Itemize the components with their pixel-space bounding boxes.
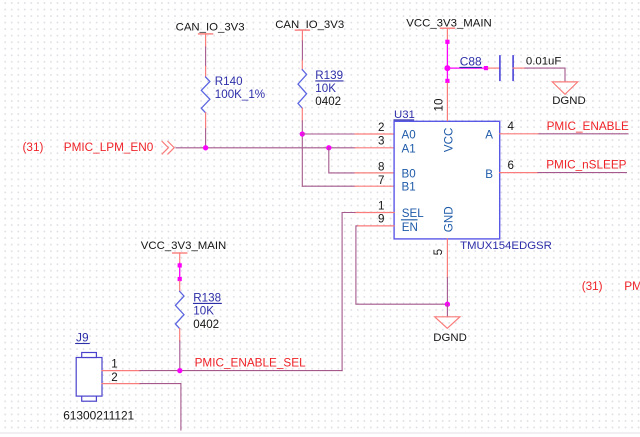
wire: PMIC_nSLEEP net xyxy=(538,172,626,174)
R140 top pin stub xyxy=(205,67,207,78)
svg-text:7: 7 xyxy=(378,174,384,187)
wire: pin1 to SEL net xyxy=(140,370,342,372)
wire: net segment to R140 top xyxy=(205,47,207,67)
svg-text:R138: R138 xyxy=(193,292,221,305)
svg-text:SEL: SEL xyxy=(402,207,424,220)
svg-text:R140: R140 xyxy=(215,75,243,88)
R138 top pin stub xyxy=(179,281,181,291)
wire: bar to R139 (salmon stub) xyxy=(301,30,303,41)
svg-text:DGND: DGND xyxy=(552,95,586,107)
svg-text:0402: 0402 xyxy=(315,95,341,108)
pin B0 stub xyxy=(355,172,394,174)
wire: PMIC_LPM_EN0 horizontal to A1 xyxy=(176,147,355,149)
svg-text:(31): (31) xyxy=(582,280,603,293)
svg-text:J9: J9 xyxy=(76,330,89,344)
svg-text:GND: GND xyxy=(443,206,456,232)
svg-text:10K: 10K xyxy=(315,82,336,95)
pin EN stub xyxy=(357,225,394,227)
pin B1 stub xyxy=(355,185,394,187)
svg-text:A0: A0 xyxy=(402,129,416,142)
svg-text:CAN_IO_3V3: CAN_IO_3V3 xyxy=(176,21,245,33)
junction at B0 branch xyxy=(326,145,331,150)
magenta square at C88 xyxy=(484,66,488,70)
wire: R140 bottom to horizontal net xyxy=(205,129,207,148)
bottom border line xyxy=(0,432,640,434)
R138 bottom pin stub xyxy=(179,329,181,341)
svg-text:100K_1%: 100K_1% xyxy=(215,88,265,101)
svg-text:A1: A1 xyxy=(402,142,416,155)
resistor R138 xyxy=(175,291,184,328)
C88 left pin stub xyxy=(488,67,500,69)
wire: bar down (salmon) xyxy=(446,28,448,42)
magenta square top xyxy=(178,263,182,267)
wire: pin5 to junction xyxy=(446,278,448,305)
svg-text:U31: U31 xyxy=(394,109,415,121)
pin SEL stub xyxy=(355,212,394,214)
R140 bottom pin stub xyxy=(205,113,207,129)
svg-text:2: 2 xyxy=(378,121,384,134)
C88 right pin stub xyxy=(513,67,525,69)
junction at GND node xyxy=(445,302,450,307)
svg-text:B0: B0 xyxy=(402,167,416,180)
svg-text:PMIC_ENABLE: PMIC_ENABLE xyxy=(547,120,629,133)
svg-text:B1: B1 xyxy=(402,181,416,194)
R139 bottom pin stub xyxy=(301,108,303,121)
svg-text:3: 3 xyxy=(378,135,384,148)
magenta square top xyxy=(445,40,449,44)
wire: CAN_IO_3V3 bar to R140 pin (salmon stub) xyxy=(205,34,207,47)
svg-text:1: 1 xyxy=(111,357,117,370)
svg-text:C88: C88 xyxy=(460,54,482,68)
wire: bar down (salmon) xyxy=(179,253,181,263)
junction to C88 xyxy=(444,65,450,71)
J9 top tab xyxy=(82,353,97,358)
svg-text:(31): (31) xyxy=(23,141,44,154)
wire: junction to ground symbol xyxy=(446,304,448,317)
svg-text:0.01uF: 0.01uF xyxy=(526,56,562,68)
R139 top pin stub xyxy=(301,60,303,69)
svg-text:R139: R139 xyxy=(315,69,343,82)
connector J9 body xyxy=(76,358,102,397)
svg-text:8: 8 xyxy=(378,161,384,174)
svg-text:PMIC_LPM_EN0: PMIC_LPM_EN0 xyxy=(64,141,154,154)
magenta square bottom xyxy=(445,79,449,83)
junction on A0 row xyxy=(300,131,305,136)
wire: pin2 right and down xyxy=(140,384,181,430)
resistor R140 xyxy=(201,77,210,113)
svg-text:6: 6 xyxy=(508,159,514,172)
wire: net segment to R139 top xyxy=(301,41,303,60)
svg-text:EN: EN xyxy=(402,221,418,234)
power port VCC_3V3_MAIN bar xyxy=(440,27,454,29)
svg-text:CAN_IO_3V3: CAN_IO_3V3 xyxy=(275,19,344,31)
wire: B1 row horizontal xyxy=(302,185,355,187)
pin B stub xyxy=(500,172,538,174)
svg-text:5: 5 xyxy=(432,248,445,255)
svg-text:1: 1 xyxy=(378,199,384,212)
wire: EN net down and right to GND junction xyxy=(356,226,448,304)
magenta net segment xyxy=(179,263,181,281)
wire: R139 bottom down to B1 row xyxy=(301,121,303,186)
capacitor C88 left plate xyxy=(499,56,501,80)
ground DGND (top) symbol xyxy=(552,82,577,94)
svg-text:VCC: VCC xyxy=(442,128,455,152)
wire: C88 to DGND corner xyxy=(525,68,565,82)
wire: A0 row horizontal xyxy=(302,133,355,135)
svg-text:10K: 10K xyxy=(193,305,214,318)
svg-text:A: A xyxy=(485,129,493,142)
pin A1 stub xyxy=(355,147,394,149)
EN overline xyxy=(402,219,418,221)
wire: PMIC_ENABLE net xyxy=(539,133,628,135)
chevron port symbol xyxy=(162,141,168,154)
J9 pin 2 stub xyxy=(102,383,140,385)
magenta square bottom xyxy=(178,277,182,281)
junction at R138 column xyxy=(177,368,182,373)
magenta net segment xyxy=(446,42,448,81)
power port VCC_3V3_MAIN (lower) bar xyxy=(173,252,187,254)
ground DGND (bottom) symbol xyxy=(435,317,460,329)
svg-text:TMUX154EDGSR: TMUX154EDGSR xyxy=(460,240,552,252)
svg-text:10: 10 xyxy=(432,98,445,112)
junction at R140 column xyxy=(203,145,208,150)
J9 pin 1 stub xyxy=(102,370,140,372)
svg-text:9: 9 xyxy=(378,212,384,225)
svg-text:PMIC_ENABLE_SEL: PMIC_ENABLE_SEL xyxy=(195,357,306,370)
svg-text:0402: 0402 xyxy=(193,318,219,331)
pin A0 stub xyxy=(355,133,394,135)
svg-text:PMI: PMI xyxy=(624,280,640,293)
VCC pin 10 stub (salmon) xyxy=(446,83,448,121)
wire: SEL net to PMIC_ENABLE_SEL xyxy=(342,213,355,371)
svg-text:B: B xyxy=(485,168,493,181)
op IC U31 body xyxy=(394,121,500,239)
resistor R139 xyxy=(298,70,307,109)
svg-text:2: 2 xyxy=(111,371,117,384)
pin A stub xyxy=(500,133,539,135)
svg-text:VCC_3V3_MAIN: VCC_3V3_MAIN xyxy=(141,240,226,252)
svg-text:PMIC_nSLEEP: PMIC_nSLEEP xyxy=(546,158,626,171)
wire: R138 to PMIC_ENABLE_SEL net xyxy=(179,341,181,371)
GND pin 5 stub (salmon) xyxy=(446,239,448,278)
power port CAN_IO_3V3 (right) bar xyxy=(295,29,309,31)
wire: branch down to B0 row xyxy=(329,148,355,173)
power port CAN_IO_3V3 (left) bar xyxy=(199,33,213,35)
svg-text:4: 4 xyxy=(508,120,515,133)
J9 bottom tab xyxy=(82,396,97,401)
svg-text:61300211121: 61300211121 xyxy=(63,409,134,423)
capacitor C88 right plate xyxy=(512,56,514,80)
svg-text:DGND: DGND xyxy=(433,332,467,344)
wire: junction to C88 (magenta) xyxy=(447,67,486,69)
